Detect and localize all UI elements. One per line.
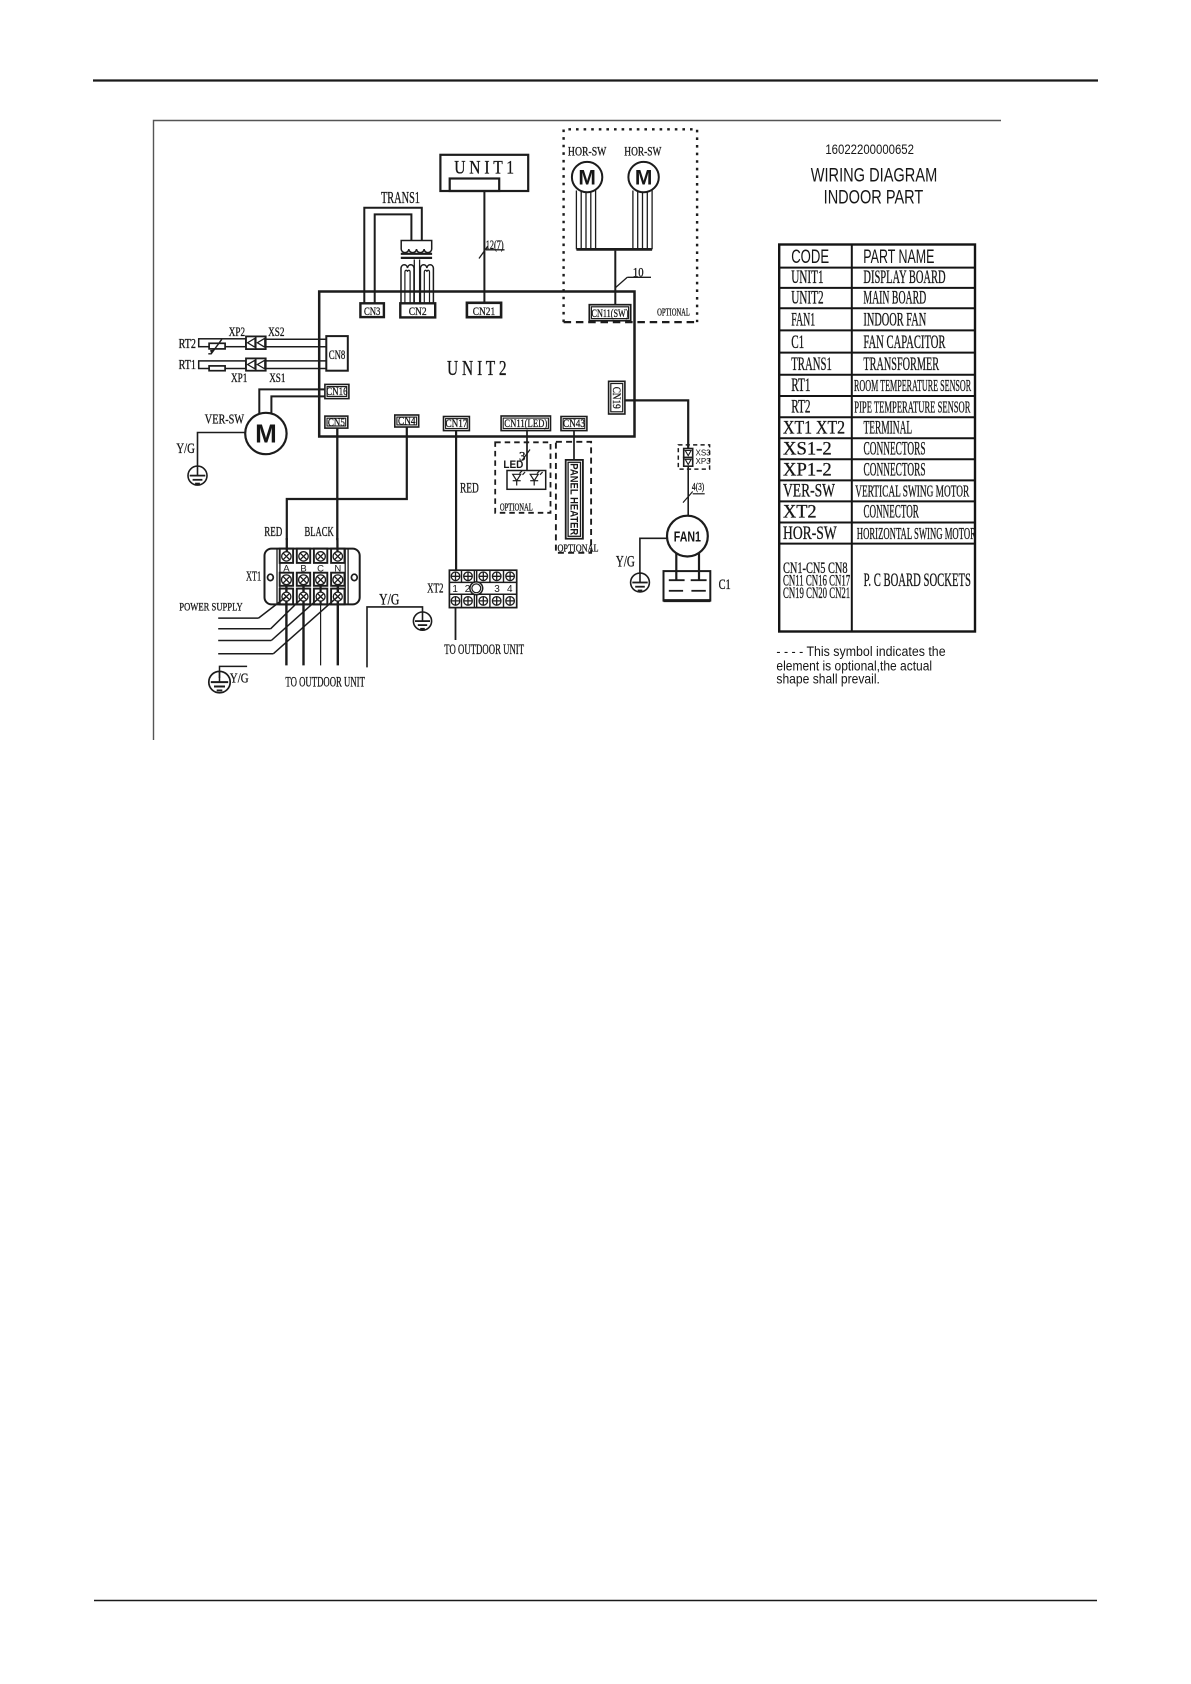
svg-text:RT2: RT2: [791, 397, 810, 418]
svg-text:CN11(LED): CN11(LED): [504, 418, 547, 431]
svg-text:LED: LED: [503, 459, 523, 472]
svg-text:TRANS1: TRANS1: [381, 188, 420, 206]
svg-text:MAIN BOARD: MAIN BOARD: [863, 288, 926, 308]
svg-text:RT2: RT2: [179, 336, 196, 352]
svg-text:CN43: CN43: [563, 417, 585, 430]
svg-text:shape shall prevail.: shape shall prevail.: [776, 671, 879, 687]
svg-text:XP1: XP1: [231, 372, 247, 386]
svg-text:RT1: RT1: [179, 357, 196, 373]
svg-text:Y/G: Y/G: [616, 553, 635, 570]
svg-text:XT1: XT1: [246, 570, 261, 584]
svg-text:B: B: [300, 563, 306, 574]
svg-text:CN11(SW): CN11(SW): [592, 308, 629, 321]
svg-text:C1: C1: [719, 576, 731, 592]
svg-text:4: 4: [507, 584, 513, 595]
svg-text:- - - - This symbol indicates: - - - - This symbol indicates the: [776, 643, 945, 659]
svg-text:Y/G: Y/G: [176, 439, 194, 456]
svg-text:INDOOR FAN: INDOOR FAN: [863, 309, 926, 330]
svg-text:XP3: XP3: [696, 457, 712, 466]
svg-text:10: 10: [633, 265, 644, 280]
svg-text:XT2: XT2: [783, 501, 817, 522]
svg-text:TRANS1: TRANS1: [791, 354, 832, 375]
svg-text:OPTIONAL: OPTIONAL: [500, 501, 533, 513]
svg-text:OPTIONAL: OPTIONAL: [558, 542, 599, 554]
svg-text:C1: C1: [791, 332, 804, 353]
svg-text:CONNECTORS: CONNECTORS: [864, 460, 926, 480]
svg-text:XS1: XS1: [269, 372, 285, 386]
svg-text:PART NAME: PART NAME: [863, 246, 934, 267]
svg-text:A: A: [283, 563, 290, 574]
svg-text:M: M: [578, 167, 596, 190]
svg-text:XT2: XT2: [427, 581, 443, 596]
svg-text:HOR-SW: HOR-SW: [568, 145, 607, 159]
svg-text:2: 2: [465, 584, 471, 595]
svg-text:U N I T 1: U N I T 1: [454, 157, 514, 178]
svg-text:CONNECTORS: CONNECTORS: [864, 439, 926, 459]
svg-text:Y/G: Y/G: [230, 670, 249, 686]
svg-text:CN5: CN5: [328, 417, 345, 429]
svg-text:TO OUTDOOR UNIT: TO OUTDOOR UNIT: [285, 673, 365, 690]
svg-text:HOR-SW: HOR-SW: [624, 145, 661, 159]
svg-text:CN17: CN17: [446, 417, 469, 430]
svg-text:TERMINAL: TERMINAL: [864, 418, 913, 438]
svg-text:FAN CAPACITOR: FAN CAPACITOR: [863, 332, 946, 353]
svg-text:CN4: CN4: [398, 415, 416, 428]
svg-text:CN2: CN2: [409, 305, 427, 318]
svg-text:3: 3: [494, 584, 500, 595]
svg-text:CN8: CN8: [329, 349, 345, 363]
svg-text:CODE: CODE: [791, 247, 829, 268]
svg-text:HORIZONTAL SWING MOTOR: HORIZONTAL SWING MOTOR: [857, 524, 976, 543]
svg-text:CN3: CN3: [364, 306, 380, 319]
svg-text:CN21: CN21: [473, 305, 495, 318]
svg-text:CN19: CN19: [610, 387, 623, 409]
svg-text:UNIT1: UNIT1: [791, 267, 823, 288]
svg-text:XS1-2: XS1-2: [783, 438, 832, 459]
svg-text:INDOOR PART: INDOOR PART: [824, 186, 924, 209]
svg-text:M: M: [635, 167, 653, 190]
svg-text:XT1 XT2: XT1 XT2: [783, 416, 845, 438]
svg-text:Y/G: Y/G: [379, 592, 399, 609]
svg-text:CONNECTOR: CONNECTOR: [864, 502, 919, 522]
svg-text:P. C BOARD SOCKETS: P. C BOARD SOCKETS: [864, 570, 971, 591]
svg-text:RT1: RT1: [791, 375, 810, 396]
svg-text:POWER SUPPLY: POWER SUPPLY: [179, 601, 243, 613]
svg-text:RED: RED: [460, 480, 479, 497]
svg-text:XS2: XS2: [268, 326, 285, 340]
svg-text:PIPE TEMPERATURE SENSOR: PIPE TEMPERATURE SENSOR: [854, 397, 970, 416]
svg-text:U N I T 2: U N I T 2: [447, 357, 507, 380]
svg-text:WIRING DIAGRAM: WIRING DIAGRAM: [811, 163, 938, 186]
svg-text:XP1-2: XP1-2: [783, 459, 832, 480]
svg-text:16022200000652: 16022200000652: [825, 141, 914, 157]
svg-text:N: N: [334, 563, 341, 574]
svg-text:VER-SW: VER-SW: [205, 411, 245, 427]
svg-text:ROOM TEMPERATURE SENSOR: ROOM TEMPERATURE SENSOR: [854, 376, 971, 395]
svg-text:TO OUTDOOR UNIT: TO OUTDOOR UNIT: [444, 641, 524, 658]
svg-text:XP2: XP2: [229, 326, 245, 340]
svg-text:TRANSFORMER: TRANSFORMER: [863, 354, 939, 375]
svg-text:4(3): 4(3): [692, 481, 704, 494]
svg-text:BLACK: BLACK: [305, 524, 335, 540]
svg-text:VER-SW: VER-SW: [783, 479, 835, 501]
svg-text:M: M: [255, 419, 277, 449]
svg-text:HOR-SW: HOR-SW: [783, 522, 837, 544]
svg-text:C: C: [317, 563, 324, 574]
svg-text:1: 1: [452, 584, 458, 595]
svg-text:FAN1: FAN1: [674, 528, 701, 545]
svg-text:12(7): 12(7): [486, 240, 504, 253]
svg-text:RED: RED: [264, 524, 282, 539]
svg-text:CN16: CN16: [326, 386, 347, 398]
svg-text:CN19 CN20 CN21: CN19 CN20 CN21: [783, 584, 850, 601]
svg-text:OPTIONAL: OPTIONAL: [657, 306, 690, 318]
svg-text:DISPLAY BOARD: DISPLAY BOARD: [863, 267, 945, 288]
svg-text:UNIT2: UNIT2: [791, 288, 823, 309]
svg-text:VERTICAL SWING MOTOR: VERTICAL SWING MOTOR: [855, 482, 970, 501]
svg-text:FAN1: FAN1: [791, 311, 815, 331]
svg-text:PANEL HEATER: PANEL HEATER: [567, 463, 579, 535]
